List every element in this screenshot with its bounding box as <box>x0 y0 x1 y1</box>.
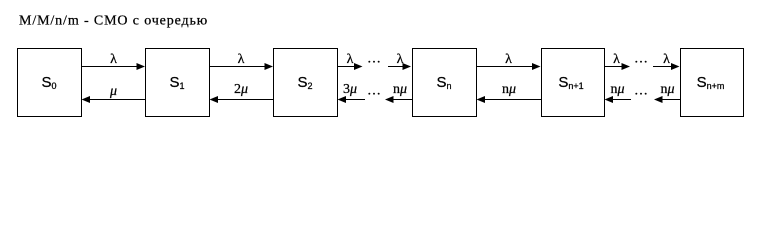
state box S2 <box>274 49 338 117</box>
label lambda (left of Sn+m) <box>663 52 670 67</box>
svg-text:λ: λ <box>238 52 245 67</box>
svg-text:λ: λ <box>347 52 354 67</box>
arrow lambda short right of Sn+1 <box>605 63 631 70</box>
label mu (S1-S0) <box>109 84 117 99</box>
arrow nmu short into Sn+1 <box>605 96 632 103</box>
state box S0 <box>18 49 82 117</box>
arrow 2mu S2 to S1 <box>210 96 274 103</box>
label nmu (left of Sn) <box>393 82 407 97</box>
arrow nmu Sn+1 to Sn <box>477 96 542 103</box>
svg-text:2μ: 2μ <box>234 82 248 97</box>
label nmu (Sn+1-Sn) <box>502 82 516 97</box>
svg-text:μ: μ <box>109 84 117 99</box>
svg-text:nμ: nμ <box>393 82 407 97</box>
ellipsis bottom between Sn+1 and Sn+m <box>634 84 648 99</box>
label lambda (right of S2) <box>347 52 354 67</box>
arrow 3mu short into S2 <box>338 96 366 103</box>
label lambda (S1-S2) <box>238 52 245 67</box>
svg-text:nμ: nμ <box>660 82 674 97</box>
svg-text:3μ: 3μ <box>343 82 357 97</box>
svg-text:λ: λ <box>397 52 404 67</box>
label nmu (right of Sn+1) <box>610 82 624 97</box>
state box Sn+1 <box>542 49 605 117</box>
svg-text:…: … <box>634 84 648 99</box>
arrow mu S1 to S0 <box>82 96 146 103</box>
label 2mu (S2-S1) <box>234 82 248 97</box>
label lambda (left of Sn) <box>397 52 404 67</box>
state box S1 <box>146 49 210 117</box>
label lambda (right of Sn+1) <box>613 52 620 67</box>
svg-text:nμ: nμ <box>502 82 516 97</box>
svg-text:λ: λ <box>110 52 117 67</box>
label 3mu (right of S2) <box>343 82 357 97</box>
svg-text:…: … <box>634 52 648 67</box>
arrow lambda S0 to S1 <box>82 63 146 70</box>
arrow lambda S1 to S2 <box>210 63 274 70</box>
svg-text:…: … <box>367 52 381 67</box>
svg-text:…: … <box>367 84 381 99</box>
title M/M/n/m - CMO c очередью <box>19 14 208 29</box>
state box Sn <box>413 49 477 117</box>
arrow lambda short into Sn+m <box>653 63 680 70</box>
svg-text:λ: λ <box>505 52 512 67</box>
arrow lambda short right of S2 <box>338 63 363 70</box>
arrow lambda short into Sn <box>388 63 411 70</box>
state box Sn+m <box>681 49 744 117</box>
ellipsis top between S2 and Sn <box>367 52 381 67</box>
arrow nmu short left of Sn+m <box>654 96 681 103</box>
label nmu (left of Sn+m) <box>660 82 674 97</box>
label lambda (S0-S1) <box>110 52 117 67</box>
ellipsis top between Sn+1 and Sn+m <box>634 52 648 67</box>
ellipsis bottom between S2 and Sn <box>367 84 381 99</box>
svg-text:nμ: nμ <box>610 82 624 97</box>
svg-text:M/M/n/m - СМО с очередью: M/M/n/m - СМО с очередью <box>19 14 208 29</box>
svg-text:λ: λ <box>663 52 670 67</box>
arrow nmu short left of Sn <box>385 96 413 103</box>
label lambda (Sn-Sn+1) <box>505 52 512 67</box>
arrow lambda Sn to Sn+1 <box>477 63 541 70</box>
svg-text:λ: λ <box>613 52 620 67</box>
